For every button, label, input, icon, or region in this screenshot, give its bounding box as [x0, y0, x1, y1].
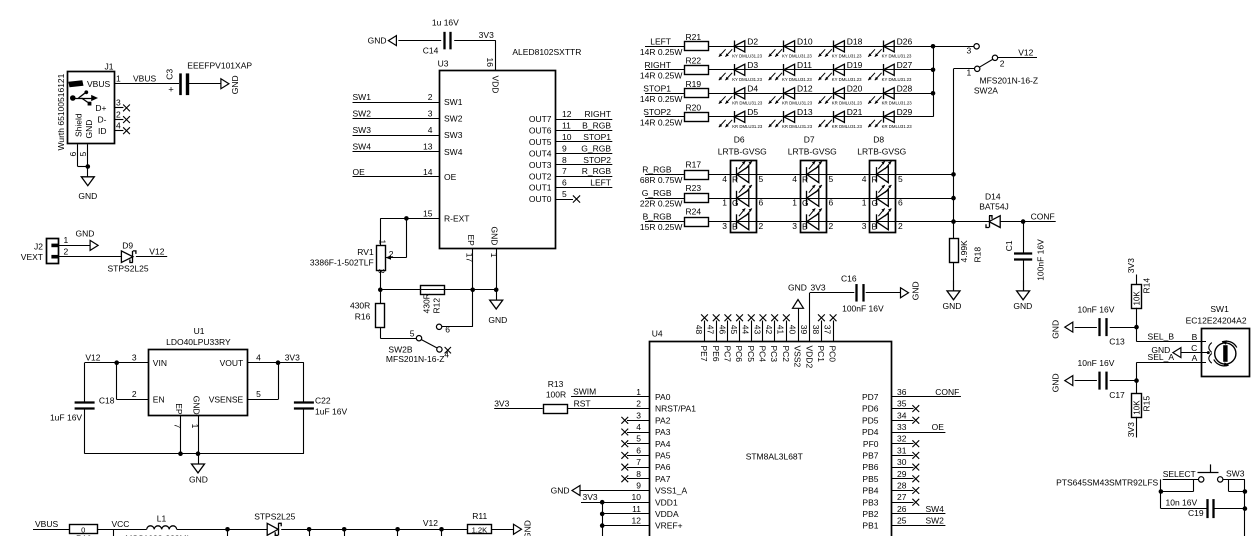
svg-text:VDDA: VDDA	[655, 509, 679, 519]
svg-text:3V3: 3V3	[811, 282, 826, 292]
svg-text:100nF 16V: 100nF 16V	[1035, 239, 1045, 281]
svg-text:U3: U3	[438, 59, 449, 69]
svg-text:NRST/PA1: NRST/PA1	[655, 404, 696, 414]
svg-text:6: 6	[636, 445, 641, 455]
svg-text:J1: J1	[105, 61, 114, 71]
svg-text:VSS1_A: VSS1_A	[655, 486, 687, 496]
svg-text:GND: GND	[488, 315, 507, 325]
svg-text:2: 2	[759, 221, 764, 231]
svg-text:PD4: PD4	[862, 427, 879, 437]
svg-text:5: 5	[410, 328, 415, 338]
svg-text:34: 34	[897, 410, 907, 420]
svg-text:G: G	[872, 198, 879, 208]
svg-text:OUT7: OUT7	[529, 114, 552, 124]
svg-text:1: 1	[722, 198, 727, 208]
svg-text:1: 1	[862, 198, 867, 208]
svg-text:14R 0.25W: 14R 0.25W	[640, 117, 683, 127]
svg-text:1: 1	[966, 68, 971, 78]
svg-text:LRTB-GVSG: LRTB-GVSG	[718, 147, 767, 157]
svg-text:29: 29	[897, 469, 907, 479]
svg-text:7: 7	[636, 457, 641, 467]
svg-text:B: B	[802, 222, 808, 232]
svg-text:8: 8	[562, 155, 567, 165]
svg-text:BAT54J: BAT54J	[979, 202, 1009, 212]
svg-text:430R: 430R	[422, 293, 432, 313]
svg-text:9: 9	[636, 481, 641, 491]
svg-text:J2: J2	[34, 242, 43, 252]
svg-text:GND: GND	[943, 301, 962, 311]
svg-text:VDD: VDD	[490, 76, 500, 94]
svg-text:PC6: PC6	[734, 346, 744, 363]
svg-text:C3: C3	[164, 69, 174, 80]
svg-text:R_RGB: R_RGB	[642, 164, 672, 174]
svg-text:D21: D21	[847, 107, 863, 117]
svg-text:2: 2	[829, 221, 834, 231]
svg-text:4: 4	[116, 120, 121, 130]
svg-text:14R 0.25W: 14R 0.25W	[640, 94, 683, 104]
svg-text:PA0: PA0	[655, 392, 671, 402]
svg-text:VIN: VIN	[153, 358, 167, 368]
svg-text:R: R	[872, 174, 878, 184]
svg-text:CONF: CONF	[1031, 211, 1055, 221]
svg-text:40: 40	[787, 325, 797, 335]
svg-text:1.2K: 1.2K	[472, 525, 488, 534]
svg-text:LRTB-GVSG: LRTB-GVSG	[857, 147, 906, 157]
svg-text:STOP2: STOP2	[583, 155, 611, 165]
svg-text:C18: C18	[99, 396, 115, 406]
svg-text:10nF 16V: 10nF 16V	[1078, 305, 1115, 315]
svg-text:3V3: 3V3	[1126, 422, 1136, 437]
svg-text:6: 6	[68, 152, 78, 157]
svg-text:2: 2	[898, 221, 903, 231]
svg-text:L1: L1	[157, 514, 167, 524]
svg-text:PA2: PA2	[655, 415, 671, 425]
svg-text:SW2: SW2	[925, 516, 944, 526]
svg-text:3V3: 3V3	[479, 30, 494, 40]
svg-text:STOP2: STOP2	[643, 107, 671, 117]
svg-text:3: 3	[722, 221, 727, 231]
svg-text:EN: EN	[153, 395, 165, 405]
svg-text:10K: 10K	[1133, 400, 1142, 415]
svg-text:PB1: PB1	[862, 521, 878, 531]
svg-text:KY DMLU31.23: KY DMLU31.23	[782, 54, 812, 59]
svg-text:PD6: PD6	[862, 404, 879, 414]
svg-text:KY DMLU31.23: KY DMLU31.23	[732, 54, 762, 59]
svg-text:RIGHT: RIGHT	[585, 109, 611, 119]
svg-text:GND: GND	[368, 36, 387, 46]
svg-text:D10: D10	[797, 37, 813, 47]
svg-text:KY DMLU31.23: KY DMLU31.23	[732, 77, 762, 82]
svg-text:D27: D27	[897, 60, 913, 70]
svg-text:SEL_B: SEL_B	[1148, 331, 1175, 341]
svg-text:R12: R12	[432, 298, 442, 314]
svg-text:C16: C16	[841, 274, 857, 284]
svg-text:28: 28	[897, 481, 907, 491]
svg-text:R20: R20	[686, 103, 702, 113]
svg-text:2: 2	[132, 389, 137, 399]
svg-text:G_RGB: G_RGB	[581, 143, 611, 153]
svg-text:3: 3	[428, 109, 433, 119]
svg-text:CONF: CONF	[935, 387, 959, 397]
svg-text:B_RGB: B_RGB	[643, 212, 672, 222]
svg-text:KR DMLU31.23: KR DMLU31.23	[782, 124, 813, 129]
svg-text:5: 5	[78, 152, 88, 157]
svg-text:VDD1: VDD1	[655, 497, 678, 507]
svg-text:R22: R22	[686, 56, 702, 66]
svg-text:3386F-1-502TLF: 3386F-1-502TLF	[310, 258, 374, 268]
svg-text:4: 4	[636, 422, 641, 432]
svg-text:D7: D7	[804, 134, 815, 144]
svg-text:14R 0.25W: 14R 0.25W	[640, 70, 683, 80]
svg-text:PA5: PA5	[655, 451, 671, 461]
svg-text:3: 3	[966, 46, 971, 56]
svg-text:SW2A: SW2A	[974, 85, 998, 95]
svg-text:D26: D26	[897, 37, 913, 47]
svg-text:VDD2: VDD2	[804, 346, 814, 369]
svg-text:PC2: PC2	[781, 346, 791, 363]
svg-text:68R 0.75W: 68R 0.75W	[640, 175, 683, 185]
svg-text:15R 0.25W: 15R 0.25W	[640, 222, 683, 232]
svg-text:3: 3	[792, 221, 797, 231]
svg-text:KR DMLU31.23: KR DMLU31.23	[832, 124, 863, 129]
svg-text:4.99K: 4.99K	[959, 240, 969, 263]
svg-text:D29: D29	[897, 107, 913, 117]
svg-text:1: 1	[377, 240, 387, 245]
svg-text:13: 13	[423, 142, 433, 152]
svg-text:D18: D18	[847, 37, 863, 47]
svg-text:10K: 10K	[1133, 291, 1142, 306]
svg-text:SW3: SW3	[1226, 468, 1245, 478]
svg-text:430R: 430R	[350, 301, 370, 311]
svg-text:D14: D14	[985, 192, 1001, 202]
svg-text:D2: D2	[747, 37, 758, 47]
svg-text:47: 47	[706, 325, 716, 335]
svg-text:PD5: PD5	[862, 415, 879, 425]
svg-text:KR DMLU31.23: KR DMLU31.23	[732, 101, 763, 106]
svg-text:12: 12	[632, 516, 642, 526]
svg-text:GND: GND	[788, 282, 807, 292]
svg-text:39: 39	[799, 325, 809, 335]
svg-text:C: C	[1191, 343, 1197, 353]
svg-text:STM8AL3L68T: STM8AL3L68T	[746, 452, 803, 462]
svg-text:1: 1	[190, 424, 200, 429]
svg-text:SELECT: SELECT	[1163, 469, 1196, 479]
svg-text:Shield: Shield	[74, 113, 84, 137]
svg-text:OUT0: OUT0	[529, 194, 552, 204]
svg-text:B: B	[1192, 332, 1198, 342]
svg-text:PB6: PB6	[862, 462, 878, 472]
svg-text:D11: D11	[797, 60, 812, 70]
svg-text:R-EXT: R-EXT	[444, 214, 470, 224]
svg-text:8: 8	[636, 469, 641, 479]
svg-text:4: 4	[428, 125, 433, 135]
svg-text:D20: D20	[847, 84, 863, 94]
svg-text:4: 4	[722, 174, 727, 184]
svg-text:2: 2	[64, 246, 69, 256]
svg-text:3V3: 3V3	[583, 492, 598, 502]
svg-text:LRTB-GVSG: LRTB-GVSG	[788, 147, 837, 157]
svg-text:STOP1: STOP1	[583, 132, 611, 142]
svg-text:GND: GND	[1051, 373, 1061, 392]
svg-text:VBUS: VBUS	[87, 79, 110, 89]
svg-text:GND: GND	[1051, 320, 1061, 339]
svg-text:RIGHT: RIGHT	[645, 60, 671, 70]
svg-text:5: 5	[759, 174, 764, 184]
svg-text:2: 2	[1000, 59, 1005, 69]
svg-text:100R: 100R	[546, 390, 566, 400]
svg-text:GND: GND	[910, 281, 920, 300]
svg-text:V12: V12	[423, 518, 438, 528]
svg-text:KR DMLU31.23: KR DMLU31.23	[882, 124, 913, 129]
svg-text:V12: V12	[149, 246, 164, 256]
svg-text:C1: C1	[1004, 240, 1014, 251]
svg-text:C19: C19	[1188, 508, 1204, 518]
svg-text:41: 41	[776, 325, 786, 335]
svg-text:42: 42	[764, 325, 774, 335]
svg-text:OUT6: OUT6	[529, 126, 552, 136]
svg-text:R11: R11	[472, 511, 487, 521]
svg-text:SW1: SW1	[444, 97, 463, 107]
svg-text:VOUT: VOUT	[220, 358, 244, 368]
svg-text:R15: R15	[1141, 396, 1151, 412]
svg-text:PE7: PE7	[699, 346, 709, 362]
svg-text:3V3: 3V3	[1126, 258, 1136, 273]
svg-text:VSENSE: VSENSE	[209, 395, 244, 405]
svg-text:PB4: PB4	[862, 486, 878, 496]
svg-text:LEFT: LEFT	[650, 36, 671, 46]
svg-text:14: 14	[423, 167, 433, 177]
svg-text:C17: C17	[1109, 390, 1125, 400]
svg-text:D-: D-	[98, 115, 107, 125]
svg-text:26: 26	[897, 504, 907, 514]
svg-text:D6: D6	[734, 134, 745, 144]
svg-text:OUT2: OUT2	[529, 171, 552, 181]
svg-text:PC7: PC7	[722, 346, 732, 363]
svg-text:14R 0.25W: 14R 0.25W	[640, 47, 683, 57]
svg-text:KY DMLU31.23: KY DMLU31.23	[832, 77, 862, 82]
svg-text:R18: R18	[973, 247, 983, 263]
svg-text:44: 44	[741, 325, 751, 335]
svg-text:R19: R19	[686, 79, 702, 89]
svg-text:2: 2	[636, 399, 641, 409]
svg-text:4: 4	[792, 174, 797, 184]
svg-text:STOP1: STOP1	[643, 83, 671, 93]
svg-text:10n 16V: 10n 16V	[1166, 497, 1198, 507]
svg-text:OE: OE	[444, 172, 457, 182]
svg-text:OE: OE	[932, 422, 945, 432]
svg-text:10: 10	[632, 492, 642, 502]
svg-text:3: 3	[862, 221, 867, 231]
svg-text:36: 36	[897, 387, 907, 397]
svg-text:EEEFPV101XAP: EEEFPV101XAP	[187, 60, 252, 70]
svg-text:PB2: PB2	[862, 509, 878, 519]
svg-text:D3: D3	[747, 60, 758, 70]
svg-text:1: 1	[489, 253, 499, 258]
svg-text:GND: GND	[78, 191, 97, 201]
svg-text:6: 6	[562, 178, 567, 188]
svg-text:C13: C13	[1109, 337, 1125, 347]
svg-text:37: 37	[822, 325, 832, 335]
svg-text:KY DMLU31.23: KY DMLU31.23	[882, 54, 912, 59]
svg-text:PB7: PB7	[862, 451, 878, 461]
svg-text:SW1: SW1	[1210, 304, 1229, 314]
svg-text:1: 1	[792, 198, 797, 208]
svg-text:SW2: SW2	[353, 109, 372, 119]
svg-text:R16: R16	[355, 312, 371, 322]
svg-text:U1: U1	[194, 326, 205, 336]
svg-text:MFS201N-16-Z: MFS201N-16-Z	[980, 76, 1039, 86]
svg-text:GND: GND	[192, 396, 202, 415]
svg-text:12: 12	[562, 109, 572, 119]
svg-text:38: 38	[811, 325, 821, 335]
svg-text:1uF 16V: 1uF 16V	[315, 407, 347, 417]
svg-text:ALED8102SXTTR: ALED8102SXTTR	[512, 47, 581, 57]
svg-text:LDO40LPU33RY: LDO40LPU33RY	[166, 337, 231, 347]
svg-text:11: 11	[562, 121, 571, 131]
svg-text:30: 30	[897, 457, 907, 467]
svg-text:B: B	[732, 222, 738, 232]
svg-text:11: 11	[632, 504, 641, 514]
svg-text:D28: D28	[897, 84, 913, 94]
svg-text:EP: EP	[174, 403, 184, 415]
svg-text:46: 46	[717, 325, 727, 335]
svg-text:B_RGB: B_RGB	[582, 121, 611, 131]
svg-text:D8: D8	[873, 134, 884, 144]
svg-text:6: 6	[445, 325, 450, 335]
svg-text:5: 5	[898, 174, 903, 184]
svg-text:R23: R23	[686, 183, 702, 193]
svg-text:VBUS: VBUS	[35, 519, 58, 529]
svg-text:6: 6	[898, 198, 903, 208]
svg-text:10nF 16V: 10nF 16V	[1078, 358, 1115, 368]
svg-text:PA3: PA3	[655, 427, 671, 437]
svg-text:VEXT: VEXT	[21, 252, 43, 262]
svg-text:7: 7	[172, 424, 182, 429]
svg-text:D+: D+	[95, 103, 106, 113]
svg-text:SW4: SW4	[353, 142, 372, 152]
svg-text:6: 6	[829, 198, 834, 208]
svg-text:B: B	[872, 222, 878, 232]
svg-text:4: 4	[256, 352, 261, 362]
svg-text:1uF 16V: 1uF 16V	[50, 412, 82, 422]
svg-text:2: 2	[428, 92, 433, 102]
svg-text:SW3: SW3	[444, 130, 463, 140]
svg-text:PC3: PC3	[769, 346, 779, 363]
svg-text:OUT5: OUT5	[529, 137, 552, 147]
svg-text:VREF+: VREF+	[655, 521, 683, 531]
svg-text:35: 35	[897, 399, 907, 409]
svg-text:R: R	[802, 174, 808, 184]
svg-text:D13: D13	[797, 107, 813, 117]
svg-text:GND: GND	[1013, 301, 1032, 311]
svg-text:D19: D19	[847, 60, 863, 70]
svg-text:7: 7	[562, 166, 567, 176]
svg-text:27: 27	[897, 492, 907, 502]
svg-text:9: 9	[562, 143, 567, 153]
svg-text:15: 15	[423, 208, 433, 218]
svg-text:D4: D4	[747, 84, 758, 94]
svg-text:G: G	[802, 198, 809, 208]
svg-text:EP: EP	[466, 235, 476, 247]
svg-text:G_RGB: G_RGB	[642, 188, 672, 198]
svg-text:PA4: PA4	[655, 439, 671, 449]
svg-text:43: 43	[752, 325, 762, 335]
svg-text:1: 1	[636, 387, 641, 397]
svg-text:V12: V12	[1018, 47, 1033, 57]
svg-text:33: 33	[897, 422, 907, 432]
svg-text:SW4: SW4	[925, 504, 944, 514]
svg-text:3V3: 3V3	[285, 352, 300, 362]
svg-text:PB3: PB3	[862, 497, 878, 507]
svg-text:KY DMLU31.23: KY DMLU31.23	[882, 77, 912, 82]
svg-text:3: 3	[116, 98, 121, 108]
svg-text:V12: V12	[85, 352, 100, 362]
svg-text:PB5: PB5	[862, 474, 878, 484]
svg-text:A: A	[1192, 353, 1198, 363]
svg-text:48: 48	[694, 325, 704, 335]
svg-text:KR DMLU31.23: KR DMLU31.23	[882, 101, 913, 106]
svg-text:R17: R17	[686, 159, 702, 169]
svg-text:5: 5	[829, 174, 834, 184]
svg-text:SW1: SW1	[353, 92, 372, 102]
svg-text:VBUS: VBUS	[133, 73, 156, 83]
svg-text:1u 16V: 1u 16V	[432, 18, 459, 28]
svg-text:KY DMLU31.23: KY DMLU31.23	[782, 77, 812, 82]
svg-text:STPS2L25: STPS2L25	[108, 263, 149, 273]
svg-text:G: G	[732, 198, 739, 208]
svg-text:1: 1	[64, 235, 69, 245]
svg-text:2: 2	[116, 109, 121, 119]
svg-text:PC1: PC1	[816, 346, 826, 363]
svg-text:SWIM: SWIM	[573, 387, 596, 397]
svg-text:GND: GND	[189, 475, 208, 485]
svg-text:ID: ID	[98, 126, 107, 136]
svg-text:+: +	[168, 85, 174, 96]
svg-text:4: 4	[444, 350, 449, 360]
svg-text:U4: U4	[652, 329, 663, 339]
svg-text:Wurth 65100516121: Wurth 65100516121	[56, 73, 66, 150]
svg-text:SW2: SW2	[444, 114, 463, 124]
svg-text:PA7: PA7	[655, 474, 671, 484]
svg-text:KR DMLU31.23: KR DMLU31.23	[732, 124, 763, 129]
svg-text:3: 3	[376, 269, 386, 274]
svg-text:C22: C22	[315, 396, 331, 406]
svg-text:3: 3	[636, 410, 641, 420]
svg-text:OUT3: OUT3	[529, 160, 552, 170]
svg-text:SEL_A: SEL_A	[1148, 352, 1175, 362]
svg-text:5: 5	[562, 189, 567, 199]
svg-text:PA6: PA6	[655, 462, 671, 472]
svg-text:1: 1	[116, 73, 121, 83]
svg-text:KR DMLU31.23: KR DMLU31.23	[782, 101, 813, 106]
svg-text:32: 32	[897, 434, 907, 444]
svg-text:2: 2	[389, 249, 394, 259]
svg-text:KY DMLU31.23: KY DMLU31.23	[832, 54, 862, 59]
svg-text:R24: R24	[686, 207, 702, 217]
svg-text:PC4: PC4	[758, 346, 768, 363]
svg-text:D9: D9	[122, 241, 133, 251]
svg-text:OUT4: OUT4	[529, 148, 552, 158]
svg-text:5: 5	[636, 434, 641, 444]
svg-text:10: 10	[562, 132, 572, 142]
svg-text:GND: GND	[551, 486, 570, 496]
svg-text:MFS201N-16-Z: MFS201N-16-Z	[386, 354, 445, 364]
svg-text:D5: D5	[747, 107, 758, 117]
svg-text:17: 17	[465, 253, 475, 263]
svg-text:25: 25	[897, 516, 907, 526]
svg-text:PC5: PC5	[746, 346, 756, 363]
svg-text:R14: R14	[1141, 278, 1151, 294]
